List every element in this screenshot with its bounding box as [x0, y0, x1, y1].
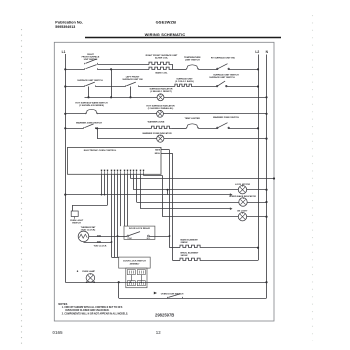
svg-text:SURFACE UNIT SW: SURFACE UNIT SW	[122, 78, 143, 81]
svg-text:BAKE COIL: BAKE COIL	[155, 72, 168, 75]
svg-text:BROIL: BROIL	[155, 153, 160, 155]
svg-text:BAKE: BAKE	[155, 149, 161, 152]
svg-text:UNIT SWITCH: UNIT SWITCH	[84, 59, 98, 61]
svg-text:NOTES: NOTES	[58, 302, 67, 306]
svg-text:LOCK MOTOR: LOCK MOTOR	[235, 184, 250, 186]
svg-text:ELECTRONIC OVEN CONTROL: ELECTRONIC OVEN CONTROL	[84, 150, 117, 152]
svg-text:2. COMPONENTS WILL N OR NOT AP: 2. COMPONENTS WILL N OR NOT APPEAR IN AL…	[62, 312, 129, 315]
svg-text:WARMER ZONE SWITCH: WARMER ZONE SWITCH	[76, 122, 102, 125]
svg-text:(2 COILS 1 EACH): (2 COILS 1 EACH)	[175, 80, 194, 83]
svg-text:N.O.: N.O.	[147, 238, 151, 240]
svg-text:SPEED BAKE INDICATOR: SPEED BAKE INDICATOR	[229, 195, 256, 198]
svg-text:LIMIT SWITCH: LIMIT SWITCH	[185, 60, 200, 62]
svg-text:WARMER ZONE SWITCH: WARMER ZONE SWITCH	[213, 116, 239, 119]
svg-text:OVEN LAMP: OVEN LAMP	[82, 270, 96, 273]
svg-text:1. CIRCUIT SHOWN WITH ALL CONT: 1. CIRCUIT SHOWN WITH ALL CONTROLS SET T…	[62, 306, 123, 309]
svg-text:WIRING SCHEMATIC: WIRING SCHEMATIC	[145, 32, 186, 37]
svg-text:(2 BULBS 1 RESIST): (2 BULBS 1 RESIST)	[150, 91, 171, 93]
svg-text:5995394913: 5995394913	[55, 25, 75, 29]
svg-text:SURFACE UNIT SWITCH: SURFACE UNIT SWITCH	[209, 76, 235, 79]
svg-text:GSE3WZB: GSE3WZB	[156, 20, 176, 25]
svg-text:TOD CLOCK: TOD CLOCK	[94, 245, 107, 247]
svg-text:12: 12	[156, 330, 161, 335]
svg-text:Publication No.: Publication No.	[55, 21, 83, 25]
svg-text:WARMER ZONE INDICATOR: WARMER ZONE INDICATOR	[142, 132, 172, 135]
svg-text:N: N	[266, 50, 269, 54]
svg-text:0165: 0165	[52, 330, 63, 335]
svg-text:DOOR LOCK RELAY: DOOR LOCK RELAY	[129, 227, 151, 230]
svg-text:3410W: 3410W	[181, 254, 189, 257]
svg-text:ON LIGHT: ON LIGHT	[237, 211, 248, 213]
svg-text:BAKE ELEMENT: BAKE ELEMENT	[181, 239, 199, 242]
svg-text:L1: L1	[62, 50, 66, 54]
svg-text:WARMER ZONE: WARMER ZONE	[148, 121, 165, 124]
svg-text:COM: COM	[128, 238, 133, 240]
svg-text:ASSEMBLY: ASSEMBLY	[130, 263, 141, 266]
svg-text:OVEN DOOR CLOSED AND UNLOCKED.: OVEN DOOR CLOSED AND UNLOCKED.	[65, 309, 109, 312]
svg-text:2585W: 2585W	[181, 242, 189, 244]
svg-text:OVEN DOOR SWITCH: OVEN DOOR SWITCH	[161, 294, 184, 296]
svg-text:2982597B: 2982597B	[155, 312, 174, 317]
svg-text:TEMP LIMITER: TEMP LIMITER	[184, 118, 200, 120]
svg-text:(1 SHOWN 4 IN SERIES): (1 SHOWN 4 IN SERIES)	[79, 104, 104, 107]
svg-text:RT SURFACE UNIT SW.: RT SURFACE UNIT SW.	[211, 57, 236, 60]
svg-text:SURFACE UNIT SWITCH: SURFACE UNIT SWITCH	[77, 79, 103, 82]
svg-text:DOOR LOCK SWITCH: DOOR LOCK SWITCH	[123, 261, 146, 263]
svg-text:ALTER COIL: ALTER COIL	[155, 57, 169, 60]
svg-text:SWITCH: SWITCH	[72, 222, 81, 224]
svg-text:L2: L2	[255, 50, 259, 54]
svg-text:(1 SHOWN 2 PARALLEL): (1 SHOWN 2 PARALLEL)	[148, 107, 174, 110]
